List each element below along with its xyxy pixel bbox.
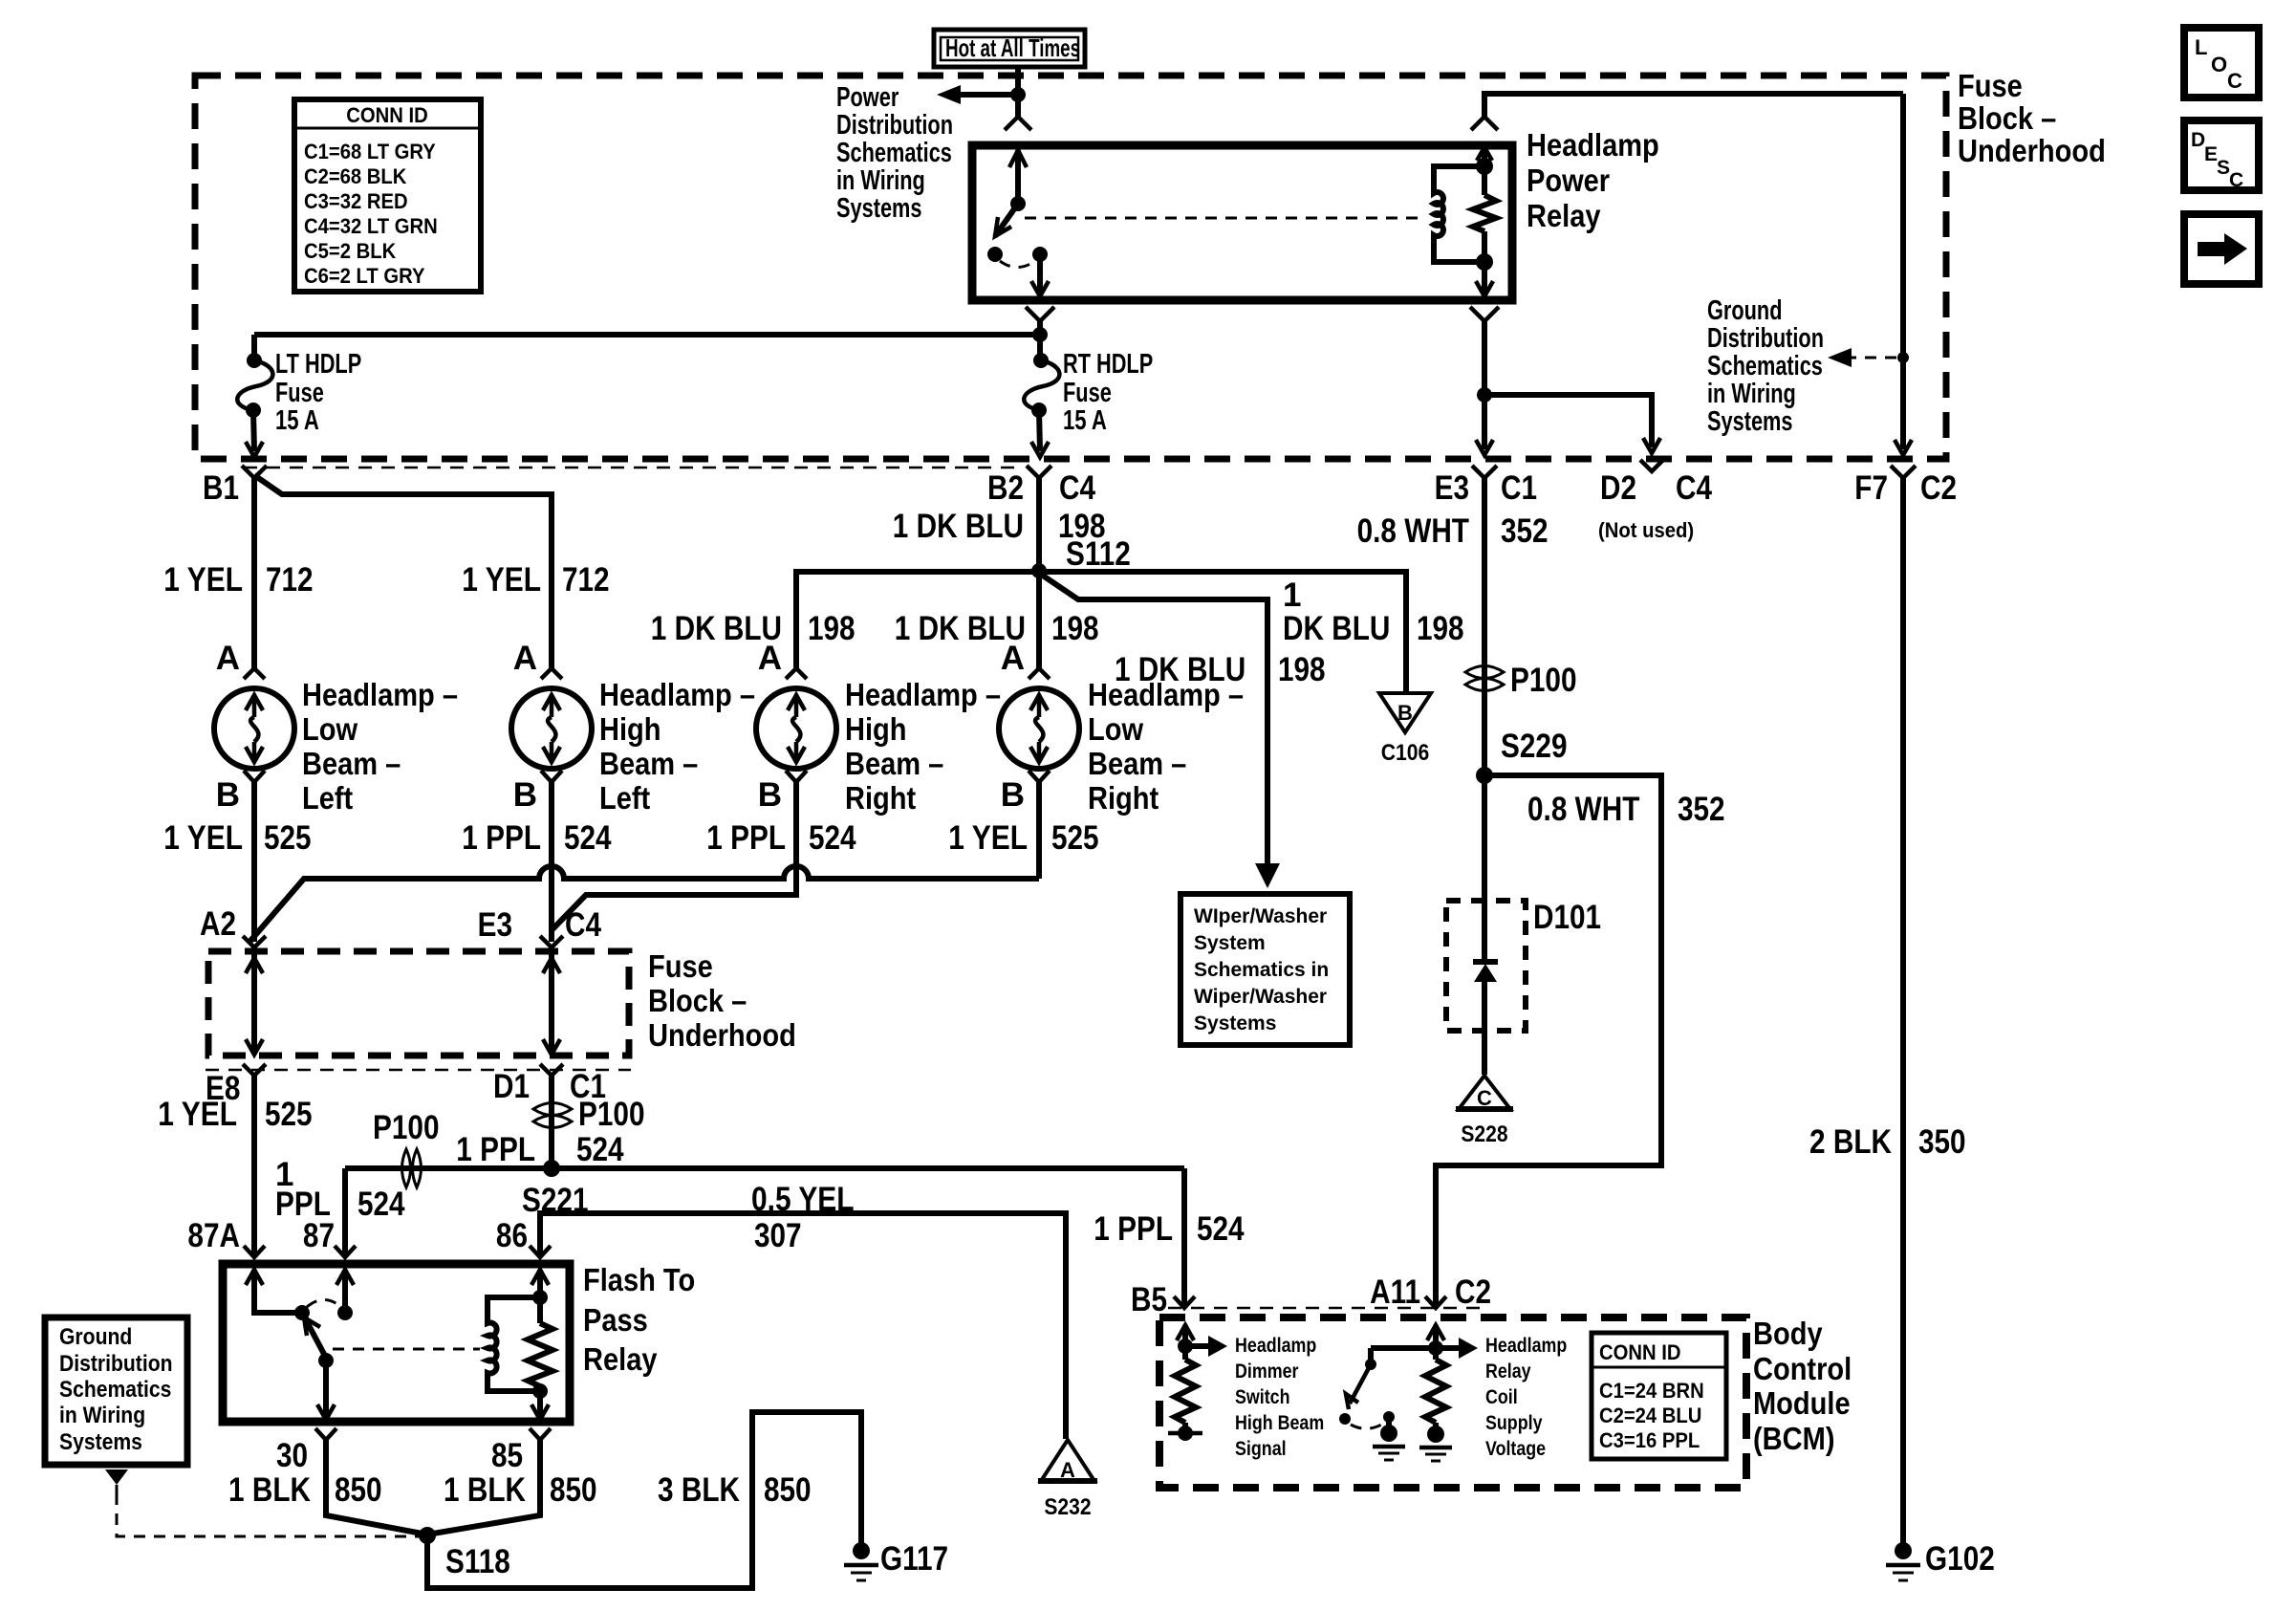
note Wiper/Washer System Schematics box xyxy=(1180,894,1350,1045)
svg-text:CONN ID: CONN ID xyxy=(346,103,428,127)
svg-text:0.5 YEL: 0.5 YEL xyxy=(751,1181,855,1218)
svg-text:Right: Right xyxy=(845,780,916,816)
svg-text:High: High xyxy=(845,711,907,747)
svg-text:Voltage: Voltage xyxy=(1485,1438,1546,1460)
svg-text:Hot at All Times: Hot at All Times xyxy=(945,33,1080,62)
wire label 1 PPL 524 (high beam left B) xyxy=(462,819,612,857)
svg-text:D1: D1 xyxy=(493,1068,530,1105)
svg-text:C106: C106 xyxy=(1381,740,1430,766)
wire label 1 YEL 712 (high beam left) xyxy=(462,561,609,599)
diode D101 dashed box xyxy=(1446,899,1601,1031)
terminal labels below flash relay xyxy=(276,1437,523,1474)
svg-text:Power: Power xyxy=(1527,163,1610,198)
lamp Headlamp Low Beam Left xyxy=(214,640,294,814)
svg-text:Headlamp –: Headlamp – xyxy=(1088,677,1244,712)
label RT HDLP Fuse 15 A xyxy=(1063,349,1153,436)
label Headlamp - Low Beam - Right xyxy=(1088,677,1244,816)
svg-text:Body: Body xyxy=(1753,1316,1823,1351)
svg-text:F7: F7 xyxy=(1854,469,1888,507)
wire through fuse block (A2-E8) xyxy=(246,947,263,1055)
wire label 3 BLK 850 xyxy=(658,1471,812,1509)
svg-text:Pass: Pass xyxy=(583,1302,648,1338)
Headlamp Power Relay box xyxy=(972,145,1512,300)
label Headlamp Dimmer Switch High Beam Signal xyxy=(1235,1335,1324,1460)
svg-text:Relay: Relay xyxy=(1527,198,1601,233)
svg-text:15 A: 15 A xyxy=(275,405,319,436)
svg-text:Power: Power xyxy=(836,82,899,113)
wire label 1 DK BLU 198 (to wiper systems) xyxy=(1115,651,1326,688)
svg-text:S228: S228 xyxy=(1461,1121,1507,1147)
svg-text:Coil: Coil xyxy=(1485,1386,1518,1408)
svg-text:87: 87 xyxy=(303,1217,335,1254)
svg-text:Switch: Switch xyxy=(1235,1386,1290,1408)
svg-text:S118: S118 xyxy=(445,1543,510,1580)
svg-text:Relay: Relay xyxy=(583,1341,658,1377)
connector chevron 87 xyxy=(335,1246,356,1257)
svg-text:Signal: Signal xyxy=(1235,1438,1287,1460)
pointer from ground distribution box to S118 xyxy=(105,1469,421,1536)
svg-text:Headlamp: Headlamp xyxy=(1485,1335,1567,1357)
svg-text:1 BLK: 1 BLK xyxy=(228,1471,311,1509)
svg-text:C: C xyxy=(2227,69,2242,93)
connector chevron 30 xyxy=(315,1428,336,1440)
note Ground Distribution Schematics in Wiring Systems (right) xyxy=(1707,295,1824,437)
svg-text:E3: E3 xyxy=(478,906,512,944)
icon LOC box xyxy=(2184,28,2259,98)
note Power Distribution Schematics in Wiring Systems xyxy=(836,82,953,224)
svg-text:Underhood: Underhood xyxy=(1958,133,2106,168)
svg-text:B: B xyxy=(1397,701,1413,725)
svg-text:525: 525 xyxy=(264,819,312,857)
svg-text:System: System xyxy=(1194,932,1266,954)
svg-text:Beam –: Beam – xyxy=(1088,746,1186,781)
relay switch (inside, left) xyxy=(987,150,1049,296)
wire 86 to 0.5 YEL run to S232 xyxy=(540,1213,1066,1439)
svg-text:S232: S232 xyxy=(1044,1494,1091,1520)
svg-text:B: B xyxy=(513,776,537,814)
svg-text:Headlamp –: Headlamp – xyxy=(845,677,1001,712)
relay control dashed link xyxy=(1025,217,1421,220)
svg-text:Schematics: Schematics xyxy=(1707,351,1823,381)
svg-text:A: A xyxy=(758,640,782,677)
BCM relay coil supply input xyxy=(1425,1325,1478,1428)
wire arrow to power distribution (left) xyxy=(937,85,1018,104)
svg-text:C2=24 BLU: C2=24 BLU xyxy=(1599,1404,1701,1427)
label Headlamp - Low Beam - Left xyxy=(302,677,458,816)
wire arrow into wiper/washer box xyxy=(1255,863,1280,888)
svg-text:B: B xyxy=(1001,776,1025,814)
icon forward arrow box xyxy=(2184,214,2259,284)
svg-text:Block –: Block – xyxy=(1958,100,2056,136)
wire E8 to flash to pass relay 87A xyxy=(251,1076,257,1257)
svg-text:Fuse: Fuse xyxy=(1958,68,2023,103)
connector B5 xyxy=(1131,1281,1195,1318)
svg-text:Schematics: Schematics xyxy=(836,138,952,168)
wire label 1 DK BLU 198 (to C106) xyxy=(1283,577,1464,647)
svg-text:D101: D101 xyxy=(1533,899,1601,936)
svg-text:Headlamp –: Headlamp – xyxy=(302,677,458,712)
label Headlamp - High Beam - Left xyxy=(599,677,755,816)
wire F7/C2 down to G102 (2 BLK 350) xyxy=(1900,478,1906,1545)
connector chevron 86 xyxy=(530,1246,551,1257)
svg-text:524: 524 xyxy=(564,819,612,857)
svg-text:Headlamp: Headlamp xyxy=(1235,1335,1316,1357)
connector E3 / C4 (fuse block lower) xyxy=(478,906,602,947)
svg-text:Ground: Ground xyxy=(59,1324,132,1350)
svg-text:E3: E3 xyxy=(1435,469,1469,507)
svg-text:DK BLU: DK BLU xyxy=(1283,610,1390,647)
splice S229 xyxy=(1476,728,1568,784)
wire label 1 PPL 524 (high beam right B) xyxy=(706,819,856,857)
wire F7 feed (fuse block to G102) upper part xyxy=(1895,94,1912,455)
svg-text:Systems: Systems xyxy=(1707,406,1793,437)
svg-text:Wiper/Washer: Wiper/Washer xyxy=(1194,986,1327,1008)
label Fuse Block - Underhood (top right) xyxy=(1958,68,2106,168)
node coil output branch xyxy=(1477,387,1492,403)
node junction at RT fuse xyxy=(1032,327,1048,342)
Fuse Block - Underhood large dashed boundary box xyxy=(195,76,1946,459)
svg-text:C: C xyxy=(1477,1086,1492,1110)
wire label 1 DK BLU 198 (low beam right) xyxy=(895,610,1099,647)
svg-text:Module: Module xyxy=(1753,1385,1851,1421)
svg-text:87A: 87A xyxy=(187,1217,240,1254)
svg-text:Underhood: Underhood xyxy=(648,1017,796,1053)
connector P100 grommet (87 wire) xyxy=(373,1109,440,1187)
label Headlamp - High Beam - Right xyxy=(845,677,1001,816)
Fuse Block - Underhood small dashed box xyxy=(208,951,629,1056)
wire top run from relay right pin to F7 wire xyxy=(1484,94,1903,117)
svg-text:C4: C4 xyxy=(565,906,601,944)
wire label 1 BLK 850 (85) xyxy=(444,1471,597,1509)
svg-text:1 YEL: 1 YEL xyxy=(163,819,243,857)
connector D1 / C1 xyxy=(493,1064,606,1105)
svg-text:B: B xyxy=(758,776,782,814)
lamp Headlamp High Beam Left xyxy=(511,640,592,814)
svg-text:85: 85 xyxy=(491,1437,523,1474)
wire 85 to S118 xyxy=(427,1440,540,1535)
svg-text:15 A: 15 A xyxy=(1063,405,1107,436)
connector A11 / C2 xyxy=(1370,1274,1491,1311)
svg-text:524: 524 xyxy=(1197,1210,1245,1248)
ground G117 xyxy=(844,1540,948,1580)
svg-text:525: 525 xyxy=(265,1096,313,1133)
ground (BCM switch) xyxy=(1373,1425,1405,1460)
note Ground Distribution Schematics box (lower left) xyxy=(45,1317,187,1465)
connector B2 / C4 xyxy=(987,466,1095,507)
svg-text:Fuse: Fuse xyxy=(1063,378,1112,408)
connector F7 / C2 xyxy=(1854,466,1957,507)
wire 87 leg xyxy=(342,1168,348,1257)
svg-text:WIper/Washer: WIper/Washer xyxy=(1194,905,1327,927)
relay coil (inside, right) xyxy=(1434,147,1496,296)
svg-text:P100: P100 xyxy=(1510,662,1577,699)
ground G102 xyxy=(1886,1540,1995,1580)
wire E3/C1 down (0.8 WHT 352) xyxy=(1482,478,1487,901)
wire 30 to S118 xyxy=(326,1440,427,1535)
wire S112 down to low beam right lamp xyxy=(1036,571,1042,669)
svg-text:C: C xyxy=(2229,169,2243,191)
diode symbol xyxy=(1473,901,1498,1031)
svg-text:0.8 WHT: 0.8 WHT xyxy=(1357,512,1469,550)
svg-text:712: 712 xyxy=(562,561,610,599)
connector C106 triangle B xyxy=(1379,693,1431,766)
connector E3 / C1 xyxy=(1435,466,1537,507)
connector chevron 87A xyxy=(244,1246,265,1257)
wire S229 branch to A11 xyxy=(1436,775,1661,1308)
svg-text:Beam –: Beam – xyxy=(302,746,401,781)
wire branch to D2 (not used) xyxy=(1484,395,1660,453)
wire relay output to headlamp fuses xyxy=(254,321,1040,360)
wire label 1 PPL 524 (87 wire) xyxy=(275,1156,405,1223)
wire B5 leg down to BCM xyxy=(1181,1168,1187,1308)
label Flash To Pass Relay xyxy=(583,1262,695,1377)
svg-text:525: 525 xyxy=(1051,819,1099,857)
svg-text:1 PPL: 1 PPL xyxy=(456,1131,535,1168)
svg-text:524: 524 xyxy=(357,1186,405,1223)
svg-text:Relay: Relay xyxy=(1485,1361,1531,1382)
wire from Hot at All Times down xyxy=(1015,67,1021,117)
connector chevron 85 xyxy=(530,1428,551,1440)
svg-text:A: A xyxy=(1060,1458,1075,1482)
wire low beam left B to A2 xyxy=(251,782,257,942)
svg-text:1 YEL: 1 YEL xyxy=(948,819,1028,857)
svg-text:Right: Right xyxy=(1088,780,1159,816)
svg-text:in Wiring: in Wiring xyxy=(59,1403,145,1428)
wire B1 to left lamps, branch at B1 xyxy=(254,475,552,669)
svg-text:1 BLK: 1 BLK xyxy=(444,1471,526,1509)
svg-text:C6=2 LT GRY: C6=2 LT GRY xyxy=(304,264,425,288)
label Headlamp Power Relay xyxy=(1527,127,1659,233)
CONN ID table (BCM) xyxy=(1592,1333,1726,1459)
splice S118 xyxy=(419,1527,510,1580)
svg-text:Systems: Systems xyxy=(59,1429,142,1455)
svg-text:Distribution: Distribution xyxy=(1707,323,1824,354)
svg-text:C4: C4 xyxy=(1676,469,1712,507)
wire headlamp relay coil output (E3/C1) xyxy=(1470,307,1499,455)
svg-text:198: 198 xyxy=(808,610,856,647)
svg-text:2 BLK: 2 BLK xyxy=(1809,1123,1892,1161)
svg-text:P100: P100 xyxy=(373,1109,440,1146)
wire S221 horizontal run to B5 xyxy=(345,1165,1184,1171)
svg-text:Control: Control xyxy=(1753,1351,1852,1386)
connector D2 / C4 (not used) xyxy=(1598,460,1712,542)
label Body Control Module (BCM) xyxy=(1753,1316,1852,1456)
svg-text:C2=68 BLK: C2=68 BLK xyxy=(304,164,406,188)
svg-text:30: 30 xyxy=(276,1437,308,1474)
svg-text:352: 352 xyxy=(1678,791,1725,828)
wire label 1 YEL 525 (E8) xyxy=(158,1096,312,1133)
terminal labels above flash relay xyxy=(187,1217,528,1254)
svg-text:S: S xyxy=(2217,157,2230,179)
lamp Headlamp Low Beam Right xyxy=(999,640,1079,814)
svg-text:P100: P100 xyxy=(578,1096,645,1133)
svg-text:E: E xyxy=(2204,143,2218,165)
svg-text:352: 352 xyxy=(1501,512,1549,550)
svg-text:Low: Low xyxy=(302,711,357,747)
svg-text:1 PPL: 1 PPL xyxy=(1094,1210,1173,1248)
wire B2 to S112 xyxy=(1036,478,1042,571)
svg-text:B1: B1 xyxy=(203,469,239,507)
svg-text:Schematics in: Schematics in xyxy=(1194,959,1329,981)
svg-text:D2: D2 xyxy=(1600,469,1636,507)
svg-text:CONN ID: CONN ID xyxy=(1599,1340,1681,1364)
pointer dashed arrow to ground distribution xyxy=(1828,348,1909,367)
svg-text:1 YEL: 1 YEL xyxy=(163,561,243,599)
svg-text:(BCM): (BCM) xyxy=(1753,1421,1835,1456)
splice S228 triangle C xyxy=(1456,1076,1513,1147)
svg-text:S229: S229 xyxy=(1501,728,1568,765)
svg-text:Dimmer: Dimmer xyxy=(1235,1361,1299,1382)
connector line (thin dashed at BCM) xyxy=(1168,1307,1489,1310)
svg-text:Systems: Systems xyxy=(1194,1012,1276,1034)
flash relay control dashed link xyxy=(333,1348,480,1351)
wire low beam right B to A2 (hops over 577 and 833) xyxy=(250,782,1039,941)
svg-text:(Not used): (Not used) xyxy=(1598,518,1694,542)
fuse RT HDLP 15A xyxy=(1024,353,1059,457)
svg-text:712: 712 xyxy=(266,561,314,599)
Hot at All Times power feed box xyxy=(934,30,1085,67)
connector line (thin dashed under small fuse block) xyxy=(206,1069,631,1072)
connector P100 grommet (0.8 WHT wire) xyxy=(1465,662,1577,699)
wire D101 to S228 xyxy=(1482,1031,1487,1075)
svg-text:C4=32 LT GRN: C4=32 LT GRN xyxy=(304,214,438,238)
wire S112 to high beam right lamp xyxy=(796,572,1039,669)
svg-text:850: 850 xyxy=(335,1471,382,1509)
svg-text:198: 198 xyxy=(1278,651,1326,688)
svg-text:High Beam: High Beam xyxy=(1235,1412,1324,1434)
svg-text:A: A xyxy=(216,640,240,677)
svg-text:524: 524 xyxy=(809,819,856,857)
flash relay coil xyxy=(487,1270,552,1420)
svg-text:in Wiring: in Wiring xyxy=(836,165,925,196)
ground (BCM coil resistor) xyxy=(1419,1426,1452,1461)
svg-text:Ground: Ground xyxy=(1707,295,1783,326)
fuse LT HDLP 15A xyxy=(237,353,272,457)
svg-text:1 DK BLU: 1 DK BLU xyxy=(893,508,1024,545)
svg-text:1 YEL: 1 YEL xyxy=(158,1096,237,1133)
wire label 1 DK BLU 198 (B2 feed) xyxy=(893,508,1106,545)
svg-text:1 PPL: 1 PPL xyxy=(462,819,541,857)
wire label 0.8 WHT 352 (branch) xyxy=(1527,791,1725,828)
svg-text:G117: G117 xyxy=(880,1540,948,1578)
svg-text:RT HDLP: RT HDLP xyxy=(1063,349,1153,380)
BCM internal switch xyxy=(1339,1348,1436,1428)
connector E8 xyxy=(206,1064,266,1107)
svg-text:3 BLK: 3 BLK xyxy=(658,1471,740,1509)
svg-text:A2: A2 xyxy=(200,905,236,943)
svg-text:Beam –: Beam – xyxy=(599,746,698,781)
connector chevron above relay right pin xyxy=(1471,117,1498,130)
svg-text:B2: B2 xyxy=(987,469,1024,507)
connector chevron below relay left pin xyxy=(1026,307,1054,321)
svg-text:1 YEL: 1 YEL xyxy=(462,561,541,599)
wire high beam left B to E3/C4 xyxy=(549,782,554,942)
svg-text:Block –: Block – xyxy=(648,983,747,1018)
svg-text:O: O xyxy=(2211,53,2227,76)
svg-text:Beam –: Beam – xyxy=(845,746,943,781)
splice S232 triangle A xyxy=(1038,1440,1097,1520)
svg-text:B5: B5 xyxy=(1131,1281,1167,1318)
label LT HDLP Fuse 15 A xyxy=(275,349,361,436)
svg-text:LT HDLP: LT HDLP xyxy=(275,349,361,380)
Flash To Pass Relay box xyxy=(223,1264,570,1422)
svg-text:Systems: Systems xyxy=(836,193,922,224)
svg-text:L: L xyxy=(2195,35,2207,59)
svg-text:A11: A11 xyxy=(1370,1274,1420,1311)
BCM headlamp dimmer switch input xyxy=(1168,1325,1227,1441)
svg-text:G102: G102 xyxy=(1925,1540,1995,1578)
svg-text:86: 86 xyxy=(496,1217,528,1254)
wire high beam right B to E3/C4 xyxy=(552,782,796,930)
svg-text:Headlamp: Headlamp xyxy=(1527,127,1659,163)
wire through fuse block (E3-D1) xyxy=(543,947,560,1055)
svg-text:850: 850 xyxy=(550,1471,597,1509)
wire D1 to S221 xyxy=(549,1076,554,1168)
svg-text:Distribution: Distribution xyxy=(836,110,953,141)
Body Control Module dashed box xyxy=(1159,1317,1746,1488)
wire label 1 YEL 525 (low beam right B) xyxy=(948,819,1098,857)
wire label 1 YEL 712 (low beam left) xyxy=(163,561,313,599)
svg-text:C3=32 RED: C3=32 RED xyxy=(304,189,408,213)
svg-text:C1=68 LT GRY: C1=68 LT GRY xyxy=(304,140,436,163)
svg-text:307: 307 xyxy=(754,1217,802,1254)
svg-text:350: 350 xyxy=(1918,1123,1966,1161)
svg-text:C2: C2 xyxy=(1455,1274,1491,1311)
icon DESC box xyxy=(2184,120,2259,191)
svg-text:Headlamp –: Headlamp – xyxy=(599,677,755,712)
svg-text:C1=24 BRN: C1=24 BRN xyxy=(1599,1379,1704,1403)
svg-text:High: High xyxy=(599,711,661,747)
svg-text:D: D xyxy=(2191,129,2205,151)
svg-text:1: 1 xyxy=(1283,577,1301,614)
svg-text:Supply: Supply xyxy=(1485,1412,1543,1434)
svg-text:Low: Low xyxy=(1088,711,1143,747)
connector line (thin dashed interface under fuse block) xyxy=(244,467,1023,469)
wire label 1 PPL 524 (B5) xyxy=(1094,1210,1245,1248)
svg-text:Left: Left xyxy=(302,780,353,816)
wire label 1 PPL 524 (D1) xyxy=(456,1131,624,1168)
label Fuse Block - Underhood (small) xyxy=(648,948,796,1053)
connector chevron above relay left pin xyxy=(1005,117,1031,130)
svg-text:524: 524 xyxy=(576,1131,624,1168)
splice S112 xyxy=(1031,535,1131,578)
svg-text:Schematics: Schematics xyxy=(59,1377,171,1403)
svg-text:C3=16 PPL: C3=16 PPL xyxy=(1599,1428,1700,1452)
splice S221 xyxy=(522,1160,589,1219)
svg-text:0.8 WHT: 0.8 WHT xyxy=(1527,791,1639,828)
node junction on feed wire xyxy=(1010,87,1026,102)
wire label 2 BLK 350 xyxy=(1809,1123,1966,1161)
svg-text:Distribution: Distribution xyxy=(59,1351,173,1377)
svg-text:B: B xyxy=(216,776,240,814)
svg-text:C1: C1 xyxy=(1501,469,1537,507)
wire label 0.8 WHT 352 (upper) xyxy=(1357,512,1549,550)
flash relay switch xyxy=(246,1270,354,1420)
lamp Headlamp High Beam Right xyxy=(756,640,836,814)
svg-text:S112: S112 xyxy=(1066,535,1131,573)
svg-text:C2: C2 xyxy=(1920,469,1957,507)
connector P100 grommet (D1 wire) xyxy=(533,1096,645,1133)
svg-text:1 PPL: 1 PPL xyxy=(706,819,786,857)
connector B1 xyxy=(203,466,267,507)
svg-text:Flash To: Flash To xyxy=(583,1262,695,1297)
wire S118 to G117 xyxy=(427,1412,861,1588)
svg-text:C5=2 BLK: C5=2 BLK xyxy=(304,239,396,263)
svg-text:Fuse: Fuse xyxy=(275,378,324,408)
wire S112 to wiper/washer arrow xyxy=(1043,576,1267,863)
svg-text:C4: C4 xyxy=(1059,469,1095,507)
svg-text:Left: Left xyxy=(599,780,650,816)
